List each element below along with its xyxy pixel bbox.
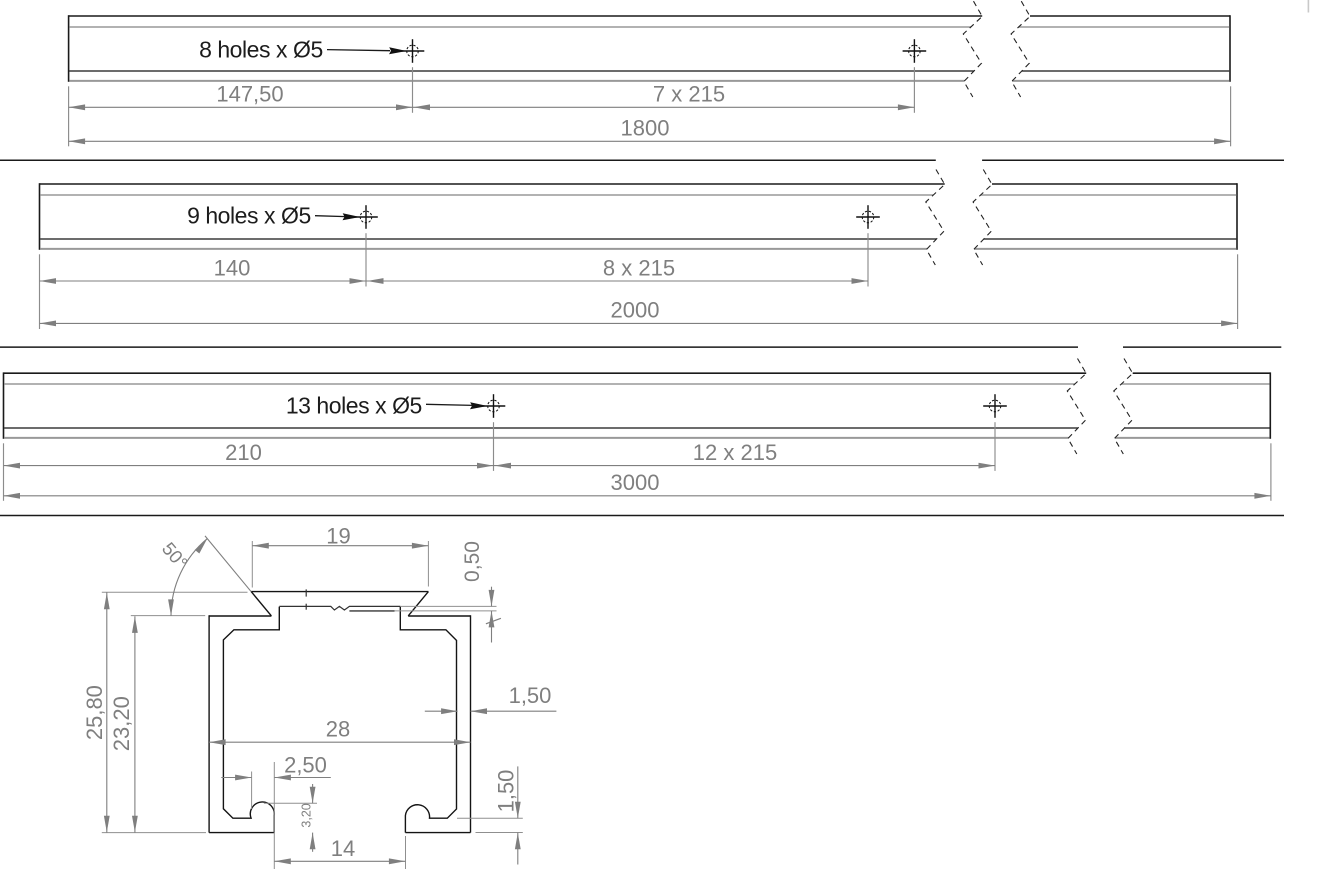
svg-text:19: 19 (326, 524, 350, 549)
svg-text:2000: 2000 (611, 298, 660, 323)
svg-text:2,50: 2,50 (284, 753, 327, 778)
svg-text:1,50: 1,50 (509, 683, 552, 708)
svg-text:210: 210 (225, 440, 262, 465)
svg-text:25,80: 25,80 (82, 685, 107, 740)
svg-text:9 holes x Ø5: 9 holes x Ø5 (187, 203, 311, 229)
svg-text:12 x 215: 12 x 215 (693, 440, 777, 465)
svg-text:0,50: 0,50 (461, 541, 484, 582)
svg-text:14: 14 (331, 836, 355, 861)
svg-text:28: 28 (326, 717, 350, 742)
svg-text:50°: 50° (158, 538, 192, 573)
svg-text:147,50: 147,50 (216, 82, 283, 107)
svg-text:7 x 215: 7 x 215 (653, 82, 725, 107)
svg-text:8 holes x Ø5: 8 holes x Ø5 (199, 36, 323, 62)
svg-text:140: 140 (214, 255, 251, 280)
svg-text:13 holes x Ø5: 13 holes x Ø5 (286, 393, 422, 419)
svg-text:8 x 215: 8 x 215 (603, 255, 675, 280)
svg-text:1,50: 1,50 (493, 770, 518, 813)
svg-text:3,20: 3,20 (299, 803, 313, 827)
svg-text:23,20: 23,20 (109, 696, 134, 751)
svg-text:1800: 1800 (621, 116, 670, 141)
svg-text:3000: 3000 (611, 470, 660, 495)
